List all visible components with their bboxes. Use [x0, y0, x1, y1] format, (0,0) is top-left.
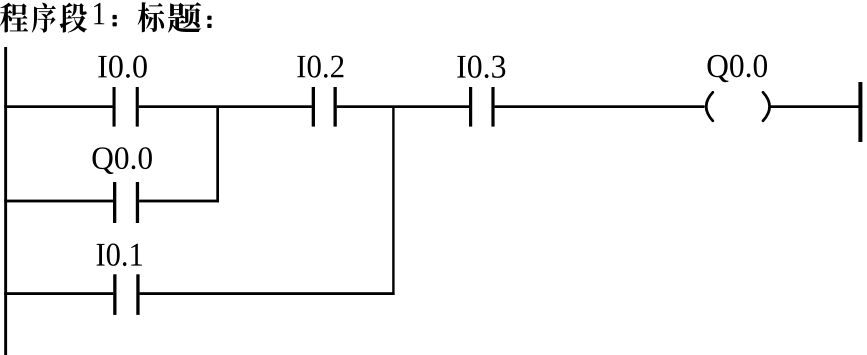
contact I0.0	[113, 87, 116, 127]
title char 序	[32, 3, 56, 33]
wire rung2: Q0.0 contact to node A branch	[139, 200, 219, 203]
title char 程	[0, 3, 28, 33]
title char 标	[138, 2, 164, 32]
contact I0.1	[113, 274, 116, 315]
label I0.0	[98, 55, 147, 77]
wire rung2: rail to contact Q0.0	[4, 200, 113, 203]
wire rung3: I0.1 to node B branch	[140, 292, 395, 295]
contact I0.2	[312, 87, 315, 127]
label I0.2	[297, 55, 343, 77]
wire rung1: I0.3 to coil Q0.0	[495, 105, 705, 108]
wire rung1: I0.2 to I0.3 through node B	[337, 105, 469, 108]
coil Q0.0 right parenthesis	[763, 92, 770, 121]
label Q0.0 (contact)	[92, 147, 151, 174]
left power rail	[4, 47, 7, 355]
wire rung1: coil to right rail	[770, 105, 860, 108]
digit 1 in title	[94, 3, 104, 24]
wire: branch from node B down to rung 3	[392, 106, 394, 295]
wire rung1: I0.0 to I0.2 through node A	[139, 105, 312, 108]
label I0.3	[457, 55, 505, 78]
label I0.1	[97, 243, 142, 266]
contact I0.3	[469, 87, 472, 127]
wire rung1: rail to contact I0.0	[4, 105, 112, 108]
right power rail	[858, 82, 862, 142]
label Q0.0 (coil)	[707, 55, 767, 82]
contact Q0.0	[113, 182, 116, 223]
title char 题	[168, 2, 201, 32]
title char 段	[60, 3, 88, 33]
title fullwidth colon 2	[207, 16, 211, 20]
title fullwidth colon 1	[113, 15, 117, 19]
wire rung3: rail to contact I0.1	[4, 292, 113, 295]
wire: branch from node A down to rung 2	[216, 106, 219, 202]
coil Q0.0 left parenthesis	[706, 92, 713, 121]
